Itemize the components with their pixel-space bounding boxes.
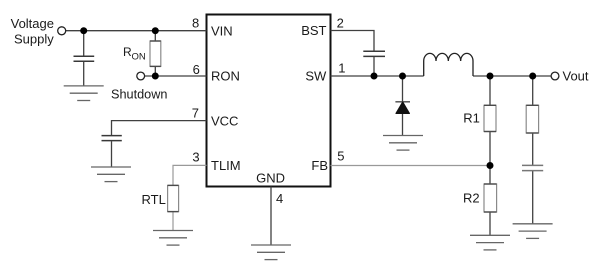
svg-text:R2: R2	[463, 191, 480, 206]
svg-text:GND: GND	[256, 171, 285, 186]
svg-text:2: 2	[337, 15, 344, 30]
svg-text:Supply: Supply	[14, 31, 54, 46]
svg-text:BST: BST	[301, 23, 326, 38]
svg-text:5: 5	[337, 148, 344, 163]
svg-text:SW: SW	[305, 69, 327, 84]
svg-text:Vout: Vout	[563, 69, 589, 84]
svg-text:3: 3	[192, 150, 199, 165]
svg-text:FB: FB	[311, 158, 328, 173]
svg-text:VIN: VIN	[211, 23, 233, 38]
svg-text:RON: RON	[211, 69, 240, 84]
svg-text:Shutdown: Shutdown	[111, 87, 167, 101]
svg-text:VCC: VCC	[211, 113, 238, 128]
svg-text:1: 1	[338, 60, 345, 75]
svg-text:4: 4	[276, 191, 283, 206]
svg-text:7: 7	[192, 106, 199, 121]
svg-text:ON: ON	[132, 51, 146, 62]
svg-text:TLIM: TLIM	[211, 158, 241, 173]
svg-text:Voltage: Voltage	[11, 16, 54, 31]
svg-text:8: 8	[192, 15, 199, 30]
svg-text:RTL: RTL	[142, 192, 166, 207]
svg-text:6: 6	[193, 62, 200, 77]
svg-text:R1: R1	[463, 111, 480, 126]
